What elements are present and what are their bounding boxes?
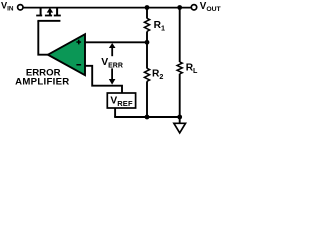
svg-text:AMPLIFIER: AMPLIFIER bbox=[15, 76, 69, 87]
